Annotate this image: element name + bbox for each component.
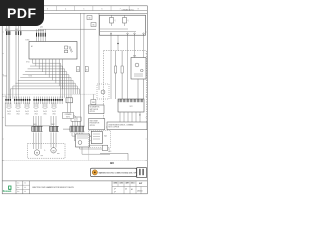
svg-text:3x1,5: 3x1,5	[16, 111, 20, 113]
svg-text:5: 5	[83, 8, 85, 10]
svg-text:W03: W03	[92, 102, 95, 104]
svg-text:F01: F01	[5, 29, 8, 31]
svg-text:3x1,5: 3x1,5	[25, 111, 29, 113]
svg-text:A3: A3	[131, 188, 133, 191]
svg-text:K701: K701	[26, 40, 30, 42]
svg-text:W03: W03	[25, 114, 28, 116]
svg-text:XT01: XT01	[74, 118, 77, 120]
svg-text:chk: chk	[24, 183, 26, 185]
svg-text:3x1,5: 3x1,5	[34, 111, 38, 113]
svg-text:COMMAND MOTO 2: COMMAND MOTO 2	[122, 8, 135, 11]
svg-text:SHT: SHT	[139, 183, 142, 185]
svg-text:STD: STD	[131, 183, 134, 185]
svg-text:BU: BU	[110, 161, 114, 165]
svg-text:3x1,5: 3x1,5	[43, 111, 47, 113]
svg-text:OPTION: OPTION	[90, 125, 95, 127]
svg-text:K701: K701	[3, 76, 7, 78]
svg-text:POSITION FOR: POSITION FOR	[90, 123, 100, 125]
svg-text:SWITCH FOR: SWITCH FOR	[90, 109, 99, 111]
svg-text:chk: chk	[24, 191, 26, 193]
svg-text:MOTO: MOTO	[66, 116, 70, 118]
svg-text:A13: A13	[109, 150, 112, 153]
svg-text:3~: 3~	[44, 150, 46, 152]
svg-text:OPTION: OPTION	[90, 111, 95, 113]
svg-text:3x1,5: 3x1,5	[52, 111, 56, 113]
svg-text:ONLY DRUM: ONLY DRUM	[90, 120, 99, 122]
svg-text:4: 4	[65, 8, 67, 10]
svg-text:chk: chk	[24, 187, 26, 189]
svg-text:XC2: XC2	[129, 106, 132, 108]
svg-text:X1: X1	[5, 96, 7, 98]
svg-text:8: 8	[138, 8, 140, 10]
svg-text:W01: W01	[7, 114, 10, 116]
svg-text:M: M	[36, 153, 38, 155]
svg-text:F02: F02	[15, 29, 18, 31]
svg-text:dwn: dwn	[17, 187, 20, 189]
svg-text:K702: K702	[29, 76, 33, 78]
svg-text:CHK: CHK	[120, 183, 123, 185]
svg-text:A21: A21	[104, 135, 107, 138]
svg-text:K701: K701	[26, 62, 30, 64]
svg-text:MOTO 2 OPTION: MOTO 2 OPTION	[109, 127, 120, 129]
svg-text:24/05/04: 24/05/04	[137, 191, 143, 193]
svg-text:JP: JP	[114, 192, 116, 194]
svg-text:30: 30	[89, 18, 91, 20]
svg-text:KM1: KM1	[133, 56, 136, 58]
svg-text:W06: W06	[52, 114, 55, 116]
svg-text:3x1,5: 3x1,5	[7, 111, 11, 113]
svg-text:dwn: dwn	[17, 191, 20, 193]
svg-text:W05: W05	[43, 114, 46, 116]
svg-text:2/4: 2/4	[125, 189, 127, 191]
svg-text:ERECTION OF M2 GEARBOX MOTOR D: ERECTION OF M2 GEARBOX MOTOR DRUM ROT. D…	[33, 186, 74, 189]
svg-text:dwn: dwn	[17, 183, 20, 185]
svg-text:M02: M02	[51, 124, 54, 126]
svg-text:M: M	[53, 150, 55, 152]
svg-text:Doosan: Doosan	[3, 191, 12, 193]
svg-text:86: 86	[93, 25, 95, 27]
svg-text:JP: JP	[114, 188, 116, 190]
svg-text:6: 6	[101, 8, 103, 10]
svg-text:W02: W02	[16, 114, 19, 116]
svg-text:Q01: Q01	[40, 27, 43, 29]
svg-text:NO DRUM POS.: NO DRUM POS.	[90, 107, 101, 109]
svg-text:3: 3	[47, 8, 49, 10]
svg-text:W04: W04	[34, 114, 37, 116]
